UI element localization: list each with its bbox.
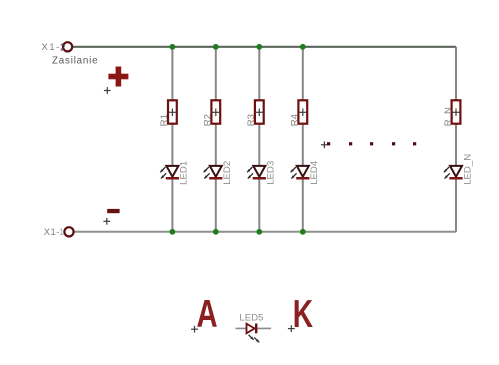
svg-text:X1-: X1- bbox=[42, 41, 61, 52]
svg-text:A: A bbox=[197, 293, 218, 336]
svg-text:LED1: LED1 bbox=[179, 161, 190, 185]
svg-text:LED3: LED3 bbox=[266, 161, 277, 185]
svg-text:LED2: LED2 bbox=[222, 161, 233, 185]
svg-text:LED_N: LED_N bbox=[462, 154, 473, 185]
svg-text:K: K bbox=[293, 293, 314, 337]
svg-text:R3: R3 bbox=[246, 114, 257, 126]
svg-text:R2: R2 bbox=[203, 114, 214, 126]
svg-text:R4: R4 bbox=[290, 113, 301, 126]
svg-text:Zasilanie: Zasilanie bbox=[52, 55, 98, 66]
svg-text:R_N: R_N bbox=[443, 107, 454, 126]
svg-text:X1-: X1- bbox=[44, 226, 60, 237]
svg-text:LED5: LED5 bbox=[239, 313, 263, 324]
svg-text:1: 1 bbox=[59, 226, 64, 237]
svg-text:LED4: LED4 bbox=[309, 160, 320, 185]
svg-text:R1: R1 bbox=[159, 114, 170, 126]
svg-text:2: 2 bbox=[60, 42, 65, 53]
